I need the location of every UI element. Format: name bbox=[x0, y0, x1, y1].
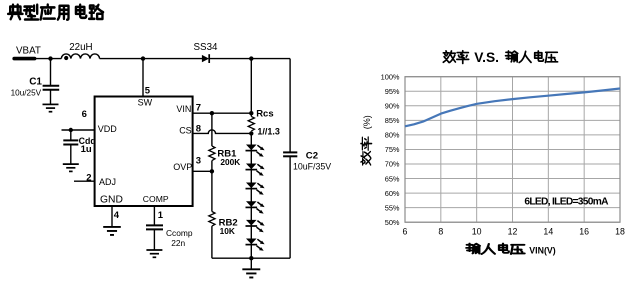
wire bottom rail (RB2 to C2) bbox=[212, 257, 290, 259]
LED D1 bbox=[246, 145, 265, 157]
svg-text:200K: 200K bbox=[220, 157, 240, 167]
wire junction down to Cdd bbox=[70, 130, 72, 140]
node LED string bottom / ground junction bbox=[249, 256, 253, 260]
chart y-axis title: 效率 (%) rotated bbox=[361, 115, 372, 165]
chart: efficiency vs input voltage bbox=[405, 77, 620, 223]
svg-text:85%: 85% bbox=[385, 116, 400, 125]
wire output node down to Rcs bbox=[250, 59, 252, 117]
svg-text:60%: 60% bbox=[385, 189, 400, 198]
node output (diode/Rcs/C2) junction bbox=[249, 56, 253, 60]
capacitor C2 bbox=[283, 152, 297, 156]
ground (C1) bbox=[43, 104, 59, 111]
svg-text:10K: 10K bbox=[220, 226, 235, 236]
svg-text:C2: C2 bbox=[306, 150, 318, 161]
wire VBAT node down to C1 bbox=[50, 59, 52, 85]
svg-text:(%): (%) bbox=[362, 115, 372, 129]
svg-text:22n: 22n bbox=[171, 238, 185, 248]
svg-text:18: 18 bbox=[615, 227, 625, 237]
svg-text:3: 3 bbox=[196, 156, 201, 167]
svg-text:50%: 50% bbox=[385, 218, 400, 227]
svg-text:22uH: 22uH bbox=[69, 42, 92, 53]
svg-text:14: 14 bbox=[543, 227, 553, 237]
wire IC pin 7 (VIN) to output node bbox=[193, 112, 252, 114]
wire Cdd to ground bbox=[70, 145, 72, 164]
svg-text:6LED, ILED=350mA: 6LED, ILED=350mA bbox=[524, 196, 609, 207]
op-amp/regulator IC U1 block bbox=[95, 97, 193, 207]
node VBAT input terminal bbox=[14, 57, 34, 61]
wire Ccomp to ground bbox=[153, 229, 155, 249]
svg-text:1: 1 bbox=[158, 210, 164, 221]
LED D5 bbox=[246, 220, 265, 232]
wire VBAT terminal to inductor bbox=[35, 58, 62, 60]
svg-text:100%: 100% bbox=[381, 72, 400, 81]
resistor RB2 bbox=[209, 171, 215, 258]
node VBAT/C1 junction bbox=[48, 56, 52, 60]
ground (Ccomp) bbox=[146, 250, 162, 257]
svg-text:70%: 70% bbox=[385, 160, 400, 169]
svg-text:COMP: COMP bbox=[143, 194, 169, 204]
svg-text:CS: CS bbox=[179, 125, 192, 135]
svg-text:10uF/35V: 10uF/35V bbox=[293, 162, 331, 172]
svg-text:Rcs: Rcs bbox=[256, 109, 273, 120]
svg-text:1u: 1u bbox=[81, 144, 92, 155]
svg-text:ADJ: ADJ bbox=[99, 177, 116, 187]
svg-text:2: 2 bbox=[86, 172, 91, 183]
capacitor Ccomp bbox=[146, 225, 163, 229]
svg-text:OVP: OVP bbox=[173, 162, 192, 172]
diode SS34 bbox=[202, 54, 209, 63]
wire IC pin 1 (COMP) to Ccomp bbox=[153, 206, 155, 225]
wire IC pin 8 (CS) to Rcs bottom, hops over RB1 bbox=[193, 130, 252, 134]
LED D6 bbox=[246, 239, 265, 251]
svg-text:75%: 75% bbox=[385, 145, 400, 154]
svg-text:6: 6 bbox=[403, 227, 408, 237]
node RB1 top junction bbox=[210, 111, 214, 115]
ground (IC GND pin) bbox=[103, 227, 121, 235]
LED D2 bbox=[246, 164, 265, 176]
wire IC pin 4 (GND) to ground bbox=[111, 206, 113, 227]
ground (output return) bbox=[242, 269, 260, 277]
svg-text:12: 12 bbox=[508, 227, 518, 237]
svg-text:SW: SW bbox=[138, 98, 153, 108]
svg-text:16: 16 bbox=[579, 227, 589, 237]
inductor L1 22uH bbox=[61, 54, 99, 60]
node SW junction bbox=[141, 56, 145, 60]
wire output node corner down to C2 bbox=[289, 59, 291, 152]
wire inductor to diode anode (through SW node) bbox=[100, 58, 202, 60]
svg-text:10u/25V: 10u/25V bbox=[11, 89, 42, 98]
svg-text:VIN(V): VIN(V) bbox=[529, 246, 555, 256]
svg-text:8: 8 bbox=[196, 124, 201, 135]
svg-text:5: 5 bbox=[145, 86, 151, 97]
chart title: 效率 V.S. 输入电压 bbox=[443, 50, 557, 65]
wire C2 to bottom rail bbox=[289, 156, 291, 258]
chart x-axis title: 输入电压 VIN(V) bbox=[466, 244, 555, 256]
chart y-axis tick labels bbox=[381, 72, 400, 227]
node RB1/RB2 junction bbox=[210, 169, 214, 173]
svg-text:V.S.: V.S. bbox=[474, 50, 499, 65]
wire IC pin 6 (VDD) stub with Cdd tap bbox=[62, 129, 95, 131]
svg-text:VDD: VDD bbox=[98, 124, 118, 134]
svg-text:65%: 65% bbox=[385, 174, 400, 183]
svg-text:8: 8 bbox=[438, 227, 443, 237]
capacitor Cdd bbox=[63, 140, 78, 144]
svg-text:C1: C1 bbox=[29, 77, 42, 88]
wire LED string backbone bbox=[250, 133, 252, 258]
svg-text:1//1.3: 1//1.3 bbox=[257, 127, 280, 137]
svg-text:VBAT: VBAT bbox=[16, 46, 41, 57]
LED D3 bbox=[246, 183, 265, 195]
wire C1 to ground bbox=[50, 90, 52, 104]
page title: 典型应用电路 (Typical Application Circuit) bbox=[8, 5, 103, 20]
svg-text:90%: 90% bbox=[385, 102, 400, 111]
svg-text:80%: 80% bbox=[385, 131, 400, 140]
svg-text:6: 6 bbox=[82, 109, 87, 120]
capacitor C1 bbox=[43, 86, 60, 90]
chart x-axis tick labels bbox=[403, 227, 625, 237]
svg-text:55%: 55% bbox=[385, 203, 400, 212]
svg-text:VIN: VIN bbox=[176, 104, 191, 114]
wire IC pin 2 (ADJ) stub bbox=[74, 180, 95, 182]
svg-text:10: 10 bbox=[472, 227, 482, 237]
LED D4 bbox=[246, 201, 265, 213]
svg-text:SS34: SS34 bbox=[194, 42, 219, 53]
chart curve: efficiency line bbox=[405, 89, 620, 127]
wire LED bottom to ground bbox=[250, 258, 252, 269]
svg-text:7: 7 bbox=[196, 103, 201, 114]
resistor Rcs bbox=[248, 116, 254, 131]
node Rcs bottom / CS / LED junction bbox=[249, 131, 253, 135]
wire IC pin 3 (OVP) to RB1/RB2 junction bbox=[193, 170, 212, 172]
svg-text:95%: 95% bbox=[385, 87, 400, 96]
resistor RB1 bbox=[209, 113, 215, 171]
wire diode cathode to output node and to C2 branch corner bbox=[209, 58, 290, 60]
svg-text:Ccomp: Ccomp bbox=[166, 228, 193, 238]
wire SW node to IC pin 5 bbox=[142, 59, 144, 97]
node Cdd tap junction bbox=[69, 128, 73, 132]
svg-text:GND: GND bbox=[100, 195, 123, 206]
node Rcs top junction bbox=[249, 111, 253, 115]
svg-text:4: 4 bbox=[114, 210, 120, 221]
ground (Cdd) bbox=[63, 164, 79, 171]
